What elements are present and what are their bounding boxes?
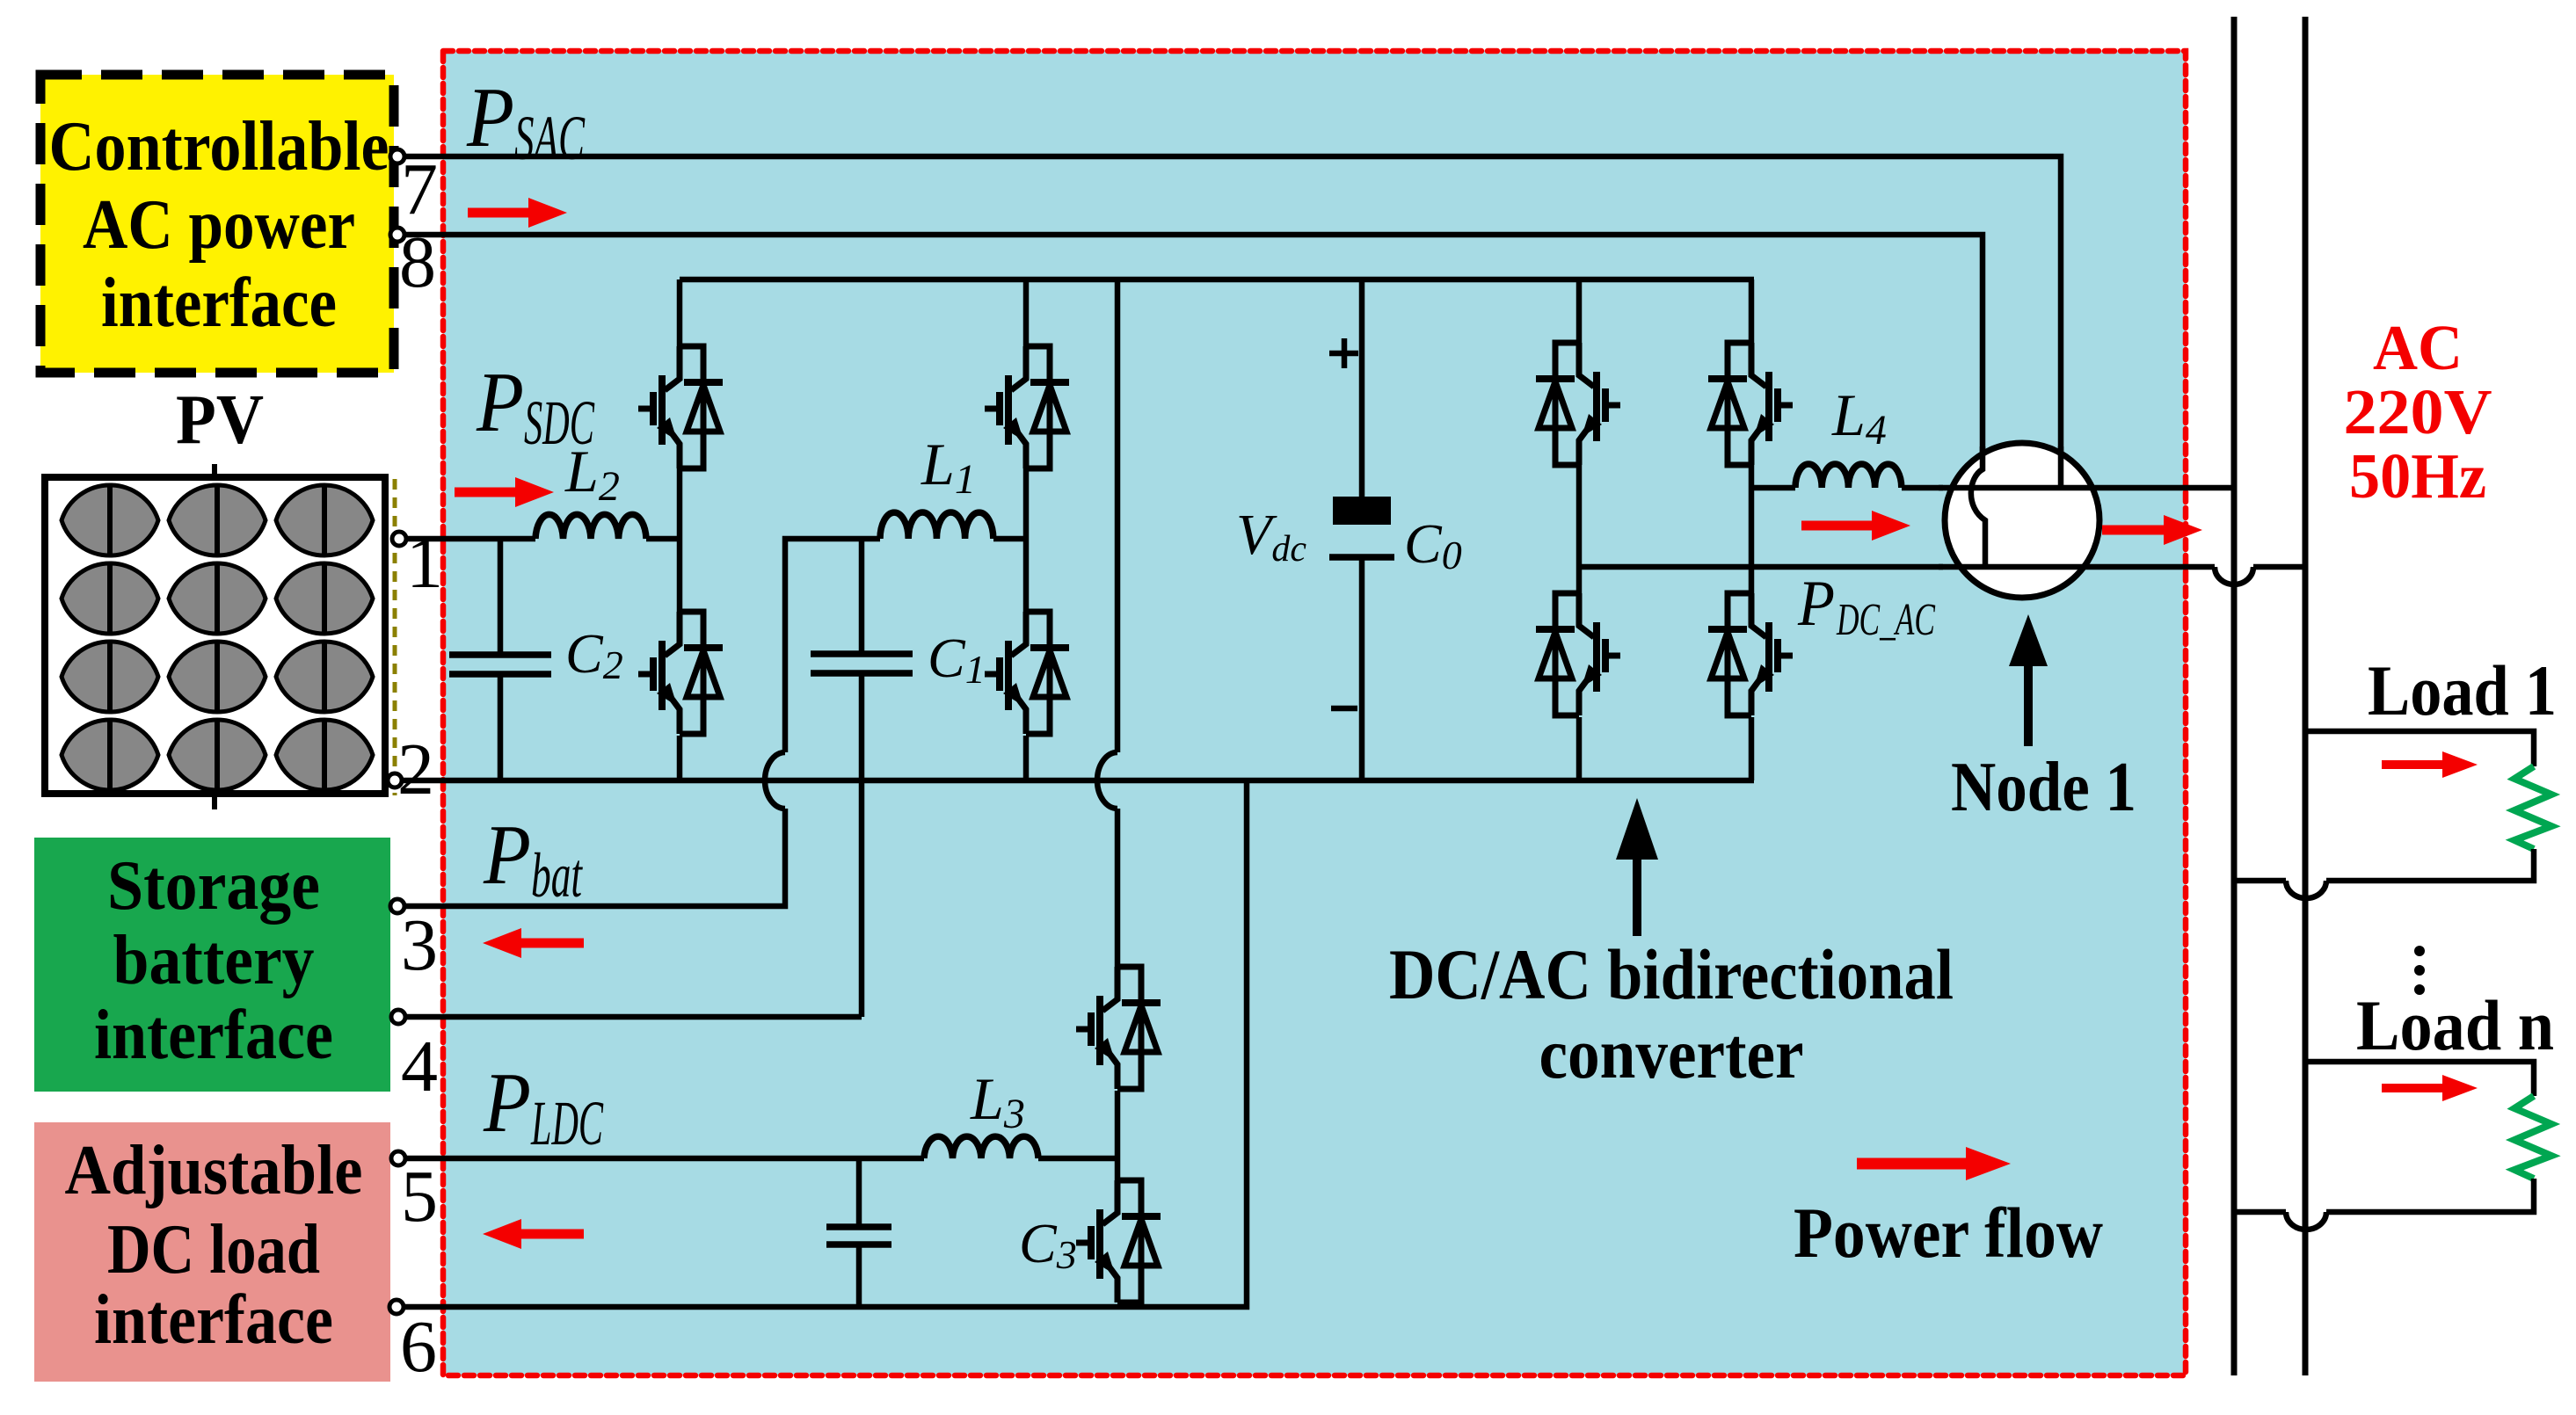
IGBT switch inverter legB bottom [1708,593,1793,715]
terminal 3 [390,899,404,913]
legA vertical segments [1576,279,1583,780]
wire node2 negative DC bus [400,778,1754,784]
wire hop over bus1 [2215,567,2253,584]
wire L1 to leg2 [993,536,1026,542]
terminal 1 [392,532,406,546]
svg-text:interface: interface [101,265,337,342]
capacitor C2 riser bottom [498,674,504,780]
capacitor C3 riser bottom [856,1244,862,1307]
wire node4 battery negative [405,1014,862,1020]
terminal 4 [391,1010,405,1024]
svg-text:Load n: Load n [2356,985,2554,1065]
wire hop load1 [2286,881,2326,898]
resistor load1 (green zigzag) [2514,766,2551,849]
IGBT switch inverter legB top [1708,343,1793,465]
capacitor C3 [826,1227,891,1244]
capacitor C2 [449,655,551,674]
svg-text:AC: AC [2373,312,2463,383]
IGBT switch battery leg bottom [985,612,1069,734]
Load n branch bottom with hop over bus2 [2234,1179,2534,1212]
resistor load n (green zigzag) [2514,1096,2551,1179]
wire L2 to leg1 [646,536,680,542]
leg1 vertical segments [677,279,683,780]
wire hop over bus (leg3) [1097,752,1117,809]
Load 1 branch bottom with hop over bus2 [2234,849,2534,881]
IGBT switch DC-load leg top [1076,967,1161,1089]
svg-text:Power flow: Power flow [1794,1193,2103,1273]
capacitor C3 riser top [856,1158,862,1227]
svg-text:8: 8 [399,221,436,303]
IGBT switch inverter legA bottom [1536,593,1620,715]
capacitor C0 electrolytic [1329,497,1394,557]
svg-text:P: P [483,1056,531,1150]
capacitor C1 riser top [859,539,865,654]
wire L4 toward node1 [1902,485,1943,491]
inductor L1 [880,512,993,539]
svg-text:interface: interface [94,1281,333,1359]
svg-text:Node 1: Node 1 [1951,749,2136,826]
svg-text:P: P [476,355,524,449]
wire node1 PV positive to L2 [405,536,535,542]
IGBT switch PV leg bottom [638,612,723,734]
svg-text:220V: 220V [2344,376,2492,447]
svg-text:7: 7 [401,149,438,230]
terminal 7 [390,149,404,163]
Load n branch top [2305,1062,2534,1096]
inductor L2 [535,514,646,539]
red arrow P_SAC [468,198,567,228]
svg-text:Load 1: Load 1 [2368,650,2557,730]
svg-text:5: 5 [401,1156,438,1237]
leg3 mid segment [1115,1091,1121,1180]
IGBT switch battery leg top [985,346,1069,468]
svg-text:converter: converter [1539,1013,1804,1093]
red arrow load 1 [2382,751,2478,778]
olive dashed separator [393,479,397,795]
red arrow P_SDC [455,477,554,507]
label AC 220V 50Hz [2344,312,2492,512]
svg-text:PV: PV [176,381,264,459]
inductor L3 [924,1136,1038,1158]
wire hop over bus (battery riser) [765,752,785,809]
IGBT switch PV leg top [638,346,723,468]
Adjustable DC load interface box [34,1122,390,1382]
black arrow to DC/AC converter [1616,798,1658,936]
svg-text:interface: interface [94,997,333,1074]
svg-text:Controllable: Controllable [49,108,389,185]
svg-text:battery: battery [113,922,315,999]
capacitor C1 riser bottom to node4 wire [859,673,865,1017]
svg-text:DC/AC bidirectional: DC/AC bidirectional [1389,934,1954,1014]
AC bus 1 [2231,17,2238,1375]
IGBT switch inverter legA top [1536,343,1620,465]
capacitor C2 riser top [498,539,504,655]
red arrow load n [2382,1075,2478,1101]
Storage battery interface box [34,838,390,1092]
svg-text:3: 3 [401,904,438,986]
svg-text:DC_AC: DC_AC [1836,595,1936,645]
leg3 vertical from top bus with hop over negative bus [1115,279,1121,967]
wire legB midpoint to L4 [1751,485,1795,491]
minus sign [1331,706,1357,712]
svg-text:2: 2 [397,729,434,810]
svg-text:DC load: DC load [107,1211,320,1288]
wire node7 P_SAC line [405,156,2061,489]
svg-text:Adjustable: Adjustable [65,1132,363,1209]
red arrow node1 output [2102,515,2202,545]
wire node6 DC load negative [405,780,1247,1307]
terminal 8 [390,228,404,242]
Controllable AC power interface box [40,75,394,373]
capacitor C1 [811,654,913,673]
vertical ellipsis between loads [2414,946,2425,995]
Load 1 branch top [2305,731,2534,766]
terminal 6 [389,1300,404,1314]
svg-text:4: 4 [401,1026,438,1107]
DC link riser [1359,279,1365,780]
wire node8 line [405,235,1983,469]
converter region (light blue box with red dotted border) [443,51,2186,1375]
wire L3 to leg3 [1038,1156,1117,1162]
AC bus 2 [2303,17,2309,1375]
wire hop load n [2286,1212,2326,1230]
wire hop to AC bus2 [2253,564,2305,570]
terminal 5 [391,1151,405,1165]
svg-text:Storage: Storage [107,847,320,925]
red arrow P_bat (left) [483,928,584,958]
PV panel [45,464,385,809]
node 1 circle (static transfer switch) [1939,443,2234,598]
svg-text:6: 6 [400,1306,437,1388]
svg-text:P: P [1797,568,1835,640]
svg-text:P: P [466,70,514,164]
inductor L4 [1795,464,1902,488]
svg-text:50Hz: 50Hz [2349,440,2486,512]
black arrow to node 1 [2009,614,2048,746]
red arrow power flow [1857,1147,2011,1180]
IGBT switch DC-load leg bottom [1076,1180,1161,1303]
red arrow P_DC_AC [1801,511,1910,541]
svg-text:1: 1 [406,522,443,604]
label DC/AC bidirectional converter [1389,934,1954,1093]
wire battery riser to L1 feed [785,539,880,752]
wire node3 battery positive [405,809,785,906]
wire top DC bus [680,277,1754,283]
plus sign [1329,338,1358,368]
wire legA midpoint to node1 [1579,564,1943,570]
PV cells (gray lens shapes in 3x4 grid) [62,485,373,790]
red arrow P_LDC (left) [483,1219,584,1249]
svg-text:P: P [483,808,531,902]
leg2 vertical segments [1023,279,1030,780]
terminal 2 [388,773,402,787]
svg-text:bat: bat [531,840,583,911]
legB vertical segments [1749,279,1755,780]
svg-text:LDC: LDC [530,1088,603,1158]
wire node5 DC load positive to L3 [405,1156,924,1162]
svg-text:AC power: AC power [83,186,355,264]
svg-text:SAC: SAC [514,103,586,173]
